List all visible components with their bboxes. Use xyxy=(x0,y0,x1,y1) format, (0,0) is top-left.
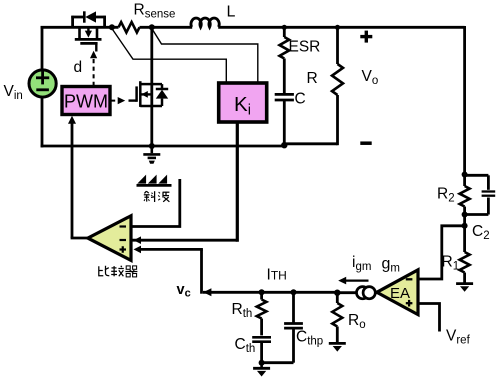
current source igm xyxy=(338,291,358,294)
wire ESR branch top xyxy=(283,27,286,37)
capacitor Cthp xyxy=(292,292,295,323)
transistor Q1 channel bar xyxy=(75,38,102,41)
label Vo plus xyxy=(360,35,372,38)
wire left vertical from top rail to Vin xyxy=(41,26,44,71)
wire top rail middle segment xyxy=(140,26,193,29)
wire ground rail xyxy=(41,145,286,148)
ground under Rth/Cth xyxy=(260,363,263,368)
transistor Q1 left stub xyxy=(78,27,81,38)
diode D2 (body diode of Q2) xyxy=(152,83,162,86)
wire EA plus input to Vref xyxy=(419,304,440,332)
wire ESR to C xyxy=(283,59,286,95)
node Cthp tap junction xyxy=(291,289,297,295)
wire load branch lower xyxy=(336,95,339,145)
transistor Q2 gate bar xyxy=(135,86,138,101)
ground under Ro xyxy=(329,342,346,345)
wire top rail left segment xyxy=(41,26,119,29)
dashed gate drive d with up arrow xyxy=(93,58,95,87)
resistor Ro xyxy=(336,293,339,303)
svg-text:C: C xyxy=(295,91,306,108)
svg-text:R: R xyxy=(307,70,318,87)
svg-text:ESR: ESR xyxy=(289,39,321,56)
wire ramp to comparator xyxy=(132,179,180,227)
wire Cthp bottom to junction xyxy=(262,361,294,364)
wire R1 to ground xyxy=(463,273,466,283)
resistor Rth xyxy=(257,300,267,319)
svg-text:ITH: ITH xyxy=(267,267,287,284)
transistor Q2 main vertical (SW to ground) xyxy=(150,27,153,147)
igm arrow xyxy=(346,279,369,281)
diode D1 (body diode of Q1) xyxy=(83,11,86,22)
resistor R1 xyxy=(460,252,470,273)
transistor Q2 channel bar xyxy=(139,81,142,107)
wire left vertical from Vin to ground rail xyxy=(41,97,44,148)
wire C to rail xyxy=(283,100,286,147)
wire Ki to comparator minus xyxy=(131,239,237,242)
node load branch top junction xyxy=(335,25,340,30)
transistor Q2 drain stub xyxy=(140,83,152,86)
node ESR branch top junction xyxy=(282,25,287,30)
transistor Q2 source stub xyxy=(140,105,152,108)
capacitor C2 loop xyxy=(465,174,489,177)
svg-text:L: L xyxy=(227,4,236,21)
ground under R1 xyxy=(456,282,473,285)
block Ki xyxy=(219,83,267,122)
inductor L xyxy=(191,18,219,27)
wire vc vertical to comparator xyxy=(200,249,203,293)
label ramp (xie bo) xyxy=(0,0,1,1)
node Rth tap junction xyxy=(259,289,265,295)
wire Rth to Cth xyxy=(260,319,263,336)
transistor Q1 body arrow xyxy=(87,27,89,31)
comparator output arrow into PWM xyxy=(71,123,74,239)
wire diode loop top xyxy=(71,16,85,19)
node R2 top junction xyxy=(462,172,468,178)
dashed PWM to Q2 gate arrow xyxy=(111,100,119,102)
wire R2 to junction xyxy=(463,207,466,253)
label comparator (bi jiao qi) xyxy=(99,191,170,277)
vc arrow xyxy=(203,288,211,296)
block PWM xyxy=(62,87,110,115)
wire output bottom rail xyxy=(284,142,337,145)
comparator U1 xyxy=(88,216,131,261)
label Vo minus xyxy=(360,141,371,145)
svg-text:d: d xyxy=(74,59,83,76)
ground under Q2 xyxy=(151,146,154,153)
sawtooth ramp icon xyxy=(137,175,146,184)
transistor Q2 gate lead xyxy=(129,99,137,101)
node output rail junction xyxy=(281,142,287,148)
wire Cth to bottom junction xyxy=(260,342,263,364)
node feedback tap junction xyxy=(462,223,468,229)
transistor Q1 right stub xyxy=(96,27,99,38)
wire load branch upper xyxy=(336,27,339,64)
wire vc/ITH horizontal xyxy=(203,291,338,294)
capacitor C xyxy=(275,93,294,96)
node bottom junction xyxy=(259,360,265,366)
wire top rail right segment xyxy=(218,26,464,29)
node Rsense left junction xyxy=(109,24,115,30)
resistor R2 xyxy=(460,186,470,207)
transistor Q1 gate lead xyxy=(95,44,97,51)
vc to comparator plus arrow xyxy=(134,246,142,254)
wire diode loop right stub xyxy=(103,16,106,27)
resistor R load xyxy=(332,64,343,95)
node ground junction xyxy=(149,143,155,149)
wire feedback tap to EA minus xyxy=(419,226,465,279)
source Vin xyxy=(29,70,56,97)
resistor ESR xyxy=(280,37,290,59)
op-amp EA (gm error amplifier) xyxy=(377,270,418,315)
sense line B to Ki xyxy=(152,29,258,83)
node SW junction xyxy=(149,24,155,30)
node Ro tap junction xyxy=(334,290,340,296)
svg-text:EA: EA xyxy=(390,285,410,302)
transistor Q2 body arrow stub xyxy=(140,93,152,95)
wire Ki output vertical xyxy=(236,122,239,242)
wire Ro to ground xyxy=(336,327,339,343)
wire vc to comparator plus xyxy=(139,248,203,251)
wire diode loop left stub xyxy=(71,16,74,27)
capacitor Cth xyxy=(252,336,271,339)
svg-text:PWM: PWM xyxy=(64,92,108,112)
wire right vertical from top rail xyxy=(463,26,466,186)
resistor Rsense xyxy=(119,22,140,32)
wire comparator output xyxy=(71,237,89,240)
node C2 bottom junction xyxy=(462,212,468,218)
transistor Q1 gate bar xyxy=(80,42,97,45)
sense line A to Ki xyxy=(112,29,226,83)
